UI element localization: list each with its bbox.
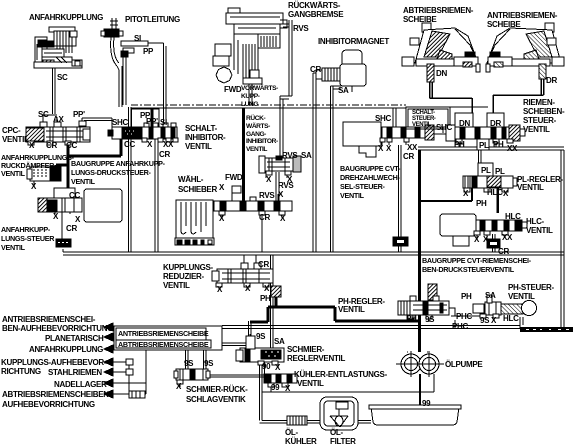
pump Oelpumpe (396, 351, 444, 377)
svg-text:KÜHLER: KÜHLER (285, 437, 317, 446)
svg-text:PH: PH (454, 140, 465, 149)
junction squares legend (126, 359, 133, 365)
svg-text:VENTIL: VENTIL (246, 146, 267, 153)
svg-text:PH: PH (260, 294, 271, 303)
svg-text:SCHIEBER: SCHIEBER (178, 185, 217, 194)
wire pitot SI pipe (148, 43, 166, 127)
svg-text:BAUGRUPPE ANFAHRKUPP-: BAUGRUPPE ANFAHRKUPP- (71, 159, 166, 168)
wire riemenscheiben valve PH stub (458, 143, 460, 147)
svg-text:PL: PL (479, 141, 489, 150)
wire 9S long y392 (262, 374, 434, 392)
svg-text:ANFAHRKUPPLUNG: ANFAHRKUPPLUNG (29, 345, 103, 354)
arrowhead 1 (104, 323, 113, 331)
svg-text:REGLERVENTIL: REGLERVENTIL (287, 354, 345, 363)
svg-text:SI: SI (134, 34, 141, 43)
svg-text:SA: SA (274, 337, 285, 346)
svg-text:VENTIL: VENTIL (185, 142, 212, 151)
svg-text:GANG-: GANG- (246, 131, 266, 138)
wire PH stub2 (495, 143, 497, 147)
svg-text:CR: CR (66, 224, 77, 233)
valve Schaltsteuerventil solenoid (343, 122, 434, 157)
svg-text:PLANETARISCH: PLANETARISCH (45, 334, 104, 343)
svg-text:CC: CC (66, 141, 77, 150)
svg-text:VENTIL: VENTIL (1, 243, 26, 252)
svg-text:VENTIL: VENTIL (412, 122, 432, 128)
wire legend vertical buses (121, 327, 146, 394)
svg-text:FWD: FWD (225, 173, 243, 182)
wire asv fitting to rail (62, 249, 64, 252)
valve PL-Regler-Ventil (463, 163, 517, 192)
svg-text:INHIBITOR-: INHIBITOR- (185, 133, 226, 142)
svg-text:GANGBREMSE: GANGBREMSE (288, 10, 344, 19)
wire pitot PP down double (123, 57, 126, 105)
valve Anfahrkupplungs-Steuer-Ventil (38, 188, 122, 247)
svg-text:CC: CC (124, 140, 135, 149)
pulley Abtriebsriemenscheibe (402, 23, 480, 82)
wire asv CR down (55, 212, 70, 240)
svg-text:KUPP-: KUPP- (241, 93, 260, 100)
wire PHC path (449, 308, 482, 329)
wire ruckdaempfer X stub (33, 181, 35, 186)
valve Waehl-Schieber manual (175, 200, 214, 245)
arrowhead 4 (104, 358, 113, 366)
valve PH-Steuer-Ventil (473, 295, 537, 318)
svg-text:CR: CR (498, 247, 509, 256)
svg-text:BEN-AUFHEBEVORRICHTUNG: BEN-AUFHEBEVORRICHTUNG (2, 324, 113, 333)
svg-text:PL: PL (481, 166, 491, 175)
legend box outer (114, 326, 222, 350)
svg-text:PITOTLEITUNG: PITOTLEITUNG (125, 15, 180, 24)
svg-text:RÜCKWÄRTS-: RÜCKWÄRTS- (288, 1, 341, 10)
svg-text:RVS: RVS (259, 191, 275, 200)
svg-text:BEN-DRUCKSTEUERVENTIL: BEN-DRUCKSTEUERVENTIL (422, 265, 515, 274)
wire CR rail double y252-255 (63, 252, 564, 255)
fitting CR hlc (487, 239, 500, 248)
svg-text:LUNG: LUNG (241, 101, 258, 108)
valve Schmier-Rueckschlagventil (174, 369, 210, 384)
wire PP' riser V1 up and over to V2 (82, 118, 112, 127)
svg-text:KÜHLER-ENTLASTUNGS-: KÜHLER-ENTLASTUNGS- (294, 370, 388, 379)
box corner bottom right thick dotted (520, 317, 523, 328)
wire CR riser x400 (399, 145, 402, 252)
wire schmier to KE (262, 362, 265, 374)
svg-text:PL: PL (495, 167, 505, 176)
wire schmierrueck to KE y375 (208, 375, 264, 377)
wire SC clutch down thick (53, 68, 56, 114)
svg-text:ABTRIEBSRIEMENSCHEIBE: ABTRIEBSRIEMENSCHEIBE (118, 340, 209, 349)
svg-text:SC: SC (57, 73, 68, 82)
wire filter to pan (358, 421, 371, 424)
svg-text:RVS: RVS (282, 151, 298, 160)
svg-text:PH: PH (476, 199, 487, 208)
svg-text:VENTIL: VENTIL (523, 125, 550, 134)
wire FWD port link (232, 193, 241, 201)
svg-text:XX: XX (502, 233, 513, 242)
svg-text:SHC: SHC (375, 114, 392, 123)
svg-text:ÖL-: ÖL- (285, 428, 299, 437)
valve spool Waehl-Schieber (214, 186, 292, 215)
svg-text:DN: DN (436, 69, 447, 78)
svg-text:SI: SI (160, 118, 167, 127)
wire rvs valve stubs (266, 172, 287, 178)
svg-text:RVS: RVS (278, 181, 294, 190)
valve RVS SA Ventil (259, 156, 301, 175)
wire 9S riser x248-251 (249, 321, 252, 336)
valve HLC-Ventil (440, 214, 527, 246)
wire waehl stubs (222, 194, 282, 218)
svg-text:XX: XX (507, 144, 518, 153)
svg-text:AUFHEBEVORRICHTUNG: AUFHEBEVORRICHTUNG (2, 400, 95, 409)
svg-text:DR: DR (546, 76, 557, 85)
svg-text:VENTIL: VENTIL (340, 191, 365, 200)
valve Schmier-Reglerventil (236, 336, 284, 365)
svg-text:RÜCK-: RÜCK- (246, 113, 265, 122)
wire CR double from magnet x313-316 (313, 73, 316, 252)
arrowhead 3 (104, 345, 113, 353)
wire long horizontal y331-334 (222, 326, 520, 329)
svg-text:PH: PH (493, 140, 504, 149)
svg-text:PH: PH (461, 292, 472, 301)
svg-text:CR: CR (259, 213, 270, 222)
svg-text:CPC-: CPC- (2, 126, 21, 135)
wire SA magnet link (331, 86, 342, 89)
svg-text:WÄRTS-: WÄRTS- (246, 122, 270, 130)
brake Rueckwaertsgangbremse (213, 8, 289, 105)
svg-text:LUNGS-STEUER: LUNGS-STEUER (1, 234, 55, 243)
wire DN path (430, 82, 473, 113)
wire RVS jog (280, 96, 292, 99)
wire SHC2 riser (382, 127, 446, 145)
svg-text:SCHALT-: SCHALT- (185, 124, 218, 133)
svg-text:RVS: RVS (293, 24, 309, 33)
box Schalt-Steuer-Ventil label box (406, 107, 450, 129)
svg-text:HLC: HLC (505, 212, 521, 221)
svg-text:KUPPLUNGS-AUFHEBEVOR-: KUPPLUNGS-AUFHEBEVOR- (1, 358, 107, 367)
wire RVS double from brake x289-292 (289, 20, 292, 96)
wire SA riser to schmier x270.5-273 (271, 255, 274, 349)
svg-text:RIEMEN-: RIEMEN- (523, 98, 555, 107)
wire SHC riser (393, 108, 396, 128)
svg-text:PP': PP' (146, 117, 158, 126)
svg-text:XX: XX (163, 140, 174, 149)
svg-text:DREHZAHLWECH-: DREHZAHLWECH- (340, 173, 400, 182)
arrowhead 7 (104, 390, 113, 398)
wire SC into cpc (43, 115, 57, 124)
wire PP loop box (132, 108, 160, 127)
svg-text:REDUZIER-: REDUZIER- (163, 272, 204, 281)
svg-text:PHC: PHC (452, 322, 469, 331)
svg-text:SA: SA (338, 86, 349, 95)
svg-text:VORWÄRTS-: VORWÄRTS- (241, 84, 278, 92)
svg-text:PP: PP (143, 47, 154, 56)
svg-text:WÄHL-: WÄHL- (178, 175, 204, 184)
wire CR magnet horizontal (313, 73, 323, 76)
pulley Antriebsriemenscheibe (486, 23, 564, 79)
clutch Anfahrkupplung (34, 27, 82, 68)
svg-text:AX: AX (53, 115, 64, 124)
wire hlc CR down (493, 234, 496, 252)
svg-text:INHIBITOR-: INHIBITOR- (246, 138, 278, 145)
svg-text:9S: 9S (425, 315, 435, 324)
svg-text:ANFAHRKUPP-: ANFAHRKUPP- (1, 225, 51, 234)
valve Schalt-Inhibitor-Ventil (108, 123, 178, 142)
svg-text:9S: 9S (256, 332, 266, 341)
svg-text:SCHMIER-: SCHMIER- (287, 345, 325, 354)
valve Kuehler-Entlastungs-Ventil (264, 374, 297, 387)
wire SA double from magnet x333-336 (331, 86, 334, 252)
svg-text:SCHMIER-RÜCK-: SCHMIER-RÜCK- (186, 385, 248, 394)
svg-text:ÖLPUMPE: ÖLPUMPE (445, 360, 483, 369)
wire thick vertical x419 (418, 150, 421, 352)
wire AX stub (56, 117, 58, 124)
svg-text:XX: XX (407, 143, 418, 152)
wire PH thick from kr to ph-regler (250, 297, 419, 322)
wire kr X stubs (219, 285, 266, 290)
svg-text:ANTRIEBSRIEMENSCHEI-: ANTRIEBSRIEMENSCHEI- (2, 315, 96, 324)
svg-text:CR: CR (46, 141, 57, 150)
box DN (455, 113, 473, 131)
svg-text:VENTIL: VENTIL (2, 135, 29, 144)
legend box row1 (116, 328, 206, 340)
svg-text:SA: SA (485, 291, 496, 300)
svg-text:ANTRIEBSRIEMEN-: ANTRIEBSRIEMEN- (487, 11, 558, 20)
svg-text:BAUGRUPPE CVT-: BAUGRUPPE CVT- (340, 164, 401, 173)
wire cooler to filter (307, 421, 321, 424)
box DR (487, 113, 504, 131)
valve Riemenscheiben-Steuer-Ventil (446, 125, 525, 150)
svg-text:STEUER-: STEUER- (523, 116, 557, 125)
tank Oelwanne pan (369, 405, 461, 425)
svg-text:VENTIL: VENTIL (338, 305, 365, 314)
svg-text:SC: SC (38, 110, 49, 119)
wire box right vertical x561-564 (561, 150, 564, 332)
arrowhead 6 (104, 379, 113, 387)
wire pl-regler stubs down (466, 187, 505, 213)
wire kupplungsreduzier CR stubs (244, 255, 256, 268)
valve Anfahrkupplungs-Ruckdaempfer-Ventil (27, 166, 61, 181)
wire pump to pan (419, 374, 421, 408)
wire hlc valve stubs (477, 235, 505, 239)
wire arrow lines legend (110, 327, 146, 394)
svg-text:FILTER: FILTER (330, 437, 356, 446)
svg-text:ABTRIEBSRIEMENSCHEIBEN-: ABTRIEBSRIEMENSCHEIBEN- (2, 390, 112, 399)
svg-text:CR: CR (310, 65, 321, 74)
wire RVS riser to valve x280-283 (280, 96, 283, 156)
wire pitot tube down (111, 37, 122, 107)
resistor legend (129, 391, 145, 398)
svg-text:ANFAHRKUPPLUNG: ANFAHRKUPPLUNG (29, 13, 103, 22)
fitting PH x430 (428, 284, 437, 300)
svg-text:SCHEIBE: SCHEIBE (487, 20, 521, 29)
svg-text:ABTRIEBSRIEMEN-: ABTRIEBSRIEMEN- (403, 6, 474, 15)
svg-text:LUNGS-DRUCKSTEUER-: LUNGS-DRUCKSTEUER- (71, 168, 152, 177)
svg-text:DR: DR (490, 119, 501, 128)
svg-text:VENTIL: VENTIL (1, 169, 26, 178)
wire box top y147-150 right (418, 147, 564, 150)
pitot tube component (101, 18, 148, 57)
svg-text:VENTIL: VENTIL (297, 379, 324, 388)
wire schmier 9S riser (249, 334, 251, 350)
wire FWD thick riser x243.5 (242, 108, 245, 201)
svg-text:SCHLAGVENTIK: SCHLAGVENTIK (186, 395, 246, 404)
wire CR double from SI-valve x155-158 (155, 138, 158, 252)
svg-text:STAHLRIEMEN: STAHLRIEMEN (48, 368, 102, 377)
svg-text:SHC: SHC (436, 123, 453, 132)
svg-text:ÖL-: ÖL- (330, 428, 344, 437)
legend box row2 (116, 340, 211, 348)
svg-text:SA: SA (301, 151, 312, 160)
wire bus left drop double x128.5-131 (129, 107, 132, 252)
wire PH down to hlc (421, 188, 472, 201)
svg-text:CR: CR (403, 152, 414, 161)
svg-text:KUPPLUNGS-: KUPPLUNGS- (163, 263, 214, 272)
arrowhead 2 (104, 333, 113, 341)
svg-text:PH: PH (406, 314, 417, 323)
wire rvs to spool (276, 172, 279, 201)
svg-text:99: 99 (422, 399, 431, 408)
valve PH-Regler-Ventil (398, 296, 449, 319)
wire PL riser to pl-regler (479, 150, 482, 163)
svg-text:DN: DN (459, 119, 470, 128)
svg-text:99: 99 (271, 383, 280, 392)
svg-text:9S: 9S (184, 359, 194, 368)
wire ph-regler stubs (411, 316, 429, 322)
svg-text:PP': PP' (73, 110, 85, 119)
wire main bus dash-dot y105-108 (131, 104, 406, 106)
wire waehl CR stub down (261, 211, 263, 252)
svg-text:ANTRIEBSRIEMENSCHEIBE: ANTRIEBSRIEMENSCHEIBE (118, 329, 209, 338)
svg-text:SCHEIBE: SCHEIBE (403, 15, 437, 24)
filter Oelfilter (320, 397, 358, 430)
svg-text:VENTIL: VENTIL (163, 281, 190, 290)
wire si valve CR label stub (143, 138, 145, 142)
solenoid Inhibitormagnet (316, 50, 366, 92)
cooler Oelkuehler (287, 416, 307, 425)
wire legend row2 to 9S fitting (211, 343, 246, 346)
svg-text:CR: CR (159, 150, 170, 159)
svg-text:INHIBITORMAGNET: INHIBITORMAGNET (318, 37, 389, 46)
svg-text:PHC: PHC (456, 312, 473, 321)
svg-text:VENTIL: VENTIL (526, 226, 553, 235)
wire schmierrueck X stub (179, 380, 181, 387)
svg-text:FWD: FWD (224, 85, 242, 94)
wire KE left down to cooler (260, 364, 288, 423)
svg-text:RICHTUNG: RICHTUNG (1, 367, 41, 376)
wire DR path (493, 79, 544, 113)
wire CC thick net (56, 139, 121, 188)
svg-text:HLC: HLC (503, 314, 519, 323)
svg-text:CR: CR (258, 260, 269, 269)
valve CPC-Ventil (26, 121, 90, 145)
svg-text:CC: CC (69, 191, 80, 200)
svg-text:HLC: HLC (487, 188, 503, 197)
svg-text:PH-STEUER-: PH-STEUER- (508, 283, 555, 292)
wire cpc stubs down (31, 142, 68, 146)
wire PP riser thick to V2 (151, 108, 154, 127)
svg-text:SHC: SHC (112, 118, 129, 127)
svg-text:SEL-STEUER-: SEL-STEUER- (340, 182, 386, 191)
svg-text:9S: 9S (480, 316, 490, 325)
svg-text:SCHEIBEN-: SCHEIBEN- (523, 107, 565, 116)
svg-text:VENTIL: VENTIL (71, 177, 96, 186)
valve Kupplungs-Reduzier-Ventil (212, 263, 281, 297)
fitting CR x400 (393, 237, 408, 246)
svg-text:90: 90 (262, 362, 271, 371)
wire schmierrueck risers (186, 350, 207, 369)
svg-text:VENTIL: VENTIL (508, 292, 535, 301)
svg-text:BAUGRUPPE CVT-RIEMENSCHEI-: BAUGRUPPE CVT-RIEMENSCHEI- (422, 256, 532, 265)
svg-text:VENTIL: VENTIL (517, 183, 544, 192)
svg-text:HLC-: HLC- (526, 217, 545, 226)
svg-text:9S: 9S (204, 359, 214, 368)
svg-text:NADELLAGER: NADELLAGER (54, 380, 107, 389)
arrowhead 5 (104, 368, 113, 376)
